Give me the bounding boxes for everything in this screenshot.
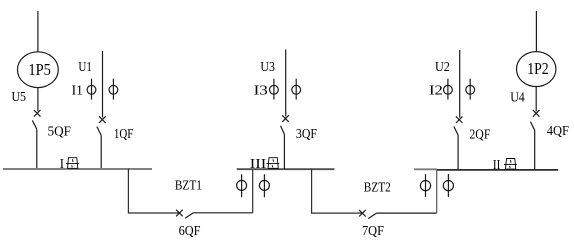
current transformer I2 left [444,79,453,100]
bus II left segment (busbar) [414,168,437,170]
svg-text:U3: U3 [260,60,275,75]
wire feeder U1 [102,51,104,117]
wire tie up to bus II [436,169,438,213]
wire 1P2 to breaker [535,87,537,112]
wire 1P5 to breaker [37,88,39,112]
circuit breaker 2QF [454,116,463,169]
svg-text:BZT2: BZT2 [364,181,391,196]
circuit breaker 3QF [281,115,289,169]
current transformer BZT1 right [259,174,269,197]
bus I (busbar) [3,168,152,170]
svg-text:1QF: 1QF [114,127,134,142]
bus II main segment (busbar) [437,169,558,171]
generator circle 1P5 [18,52,59,88]
current transformer I2 right [466,79,475,100]
svg-text:5QF: 5QF [48,124,72,139]
wire feeder U2 [459,50,461,118]
label bus I 母 [66,158,79,169]
current transformer BZT1 left [237,174,247,197]
wire bus I down to tie [128,169,179,213]
svg-text:U1: U1 [78,60,92,75]
svg-text:I: I [60,157,64,172]
svg-text:I1: I1 [72,84,83,99]
current transformer I1 right [109,79,118,100]
label bus III 母 [267,158,280,169]
circuit breaker 5QF [32,110,40,168]
current transformer I3 right [292,79,301,100]
bus tie breaker 7QF [359,210,437,219]
bus tie breaker 6QF [176,210,253,219]
current transformer BZT2 left [420,174,430,197]
current transformer I1 left [87,79,96,100]
svg-text:2QF: 2QF [469,127,490,142]
generator circle 1P2 [517,52,556,87]
svg-text:I3: I3 [254,84,268,99]
svg-text:7QF: 7QF [362,224,384,239]
wire incoming line 1P2 [535,11,537,52]
svg-text:4QF: 4QF [547,124,569,139]
wire bus III down to tie 2 [312,169,363,213]
bus III (busbar) [237,168,335,170]
wire tie up to bus III [252,169,254,213]
svg-text:U4: U4 [510,90,525,105]
svg-text:3QF: 3QF [296,127,317,142]
current transformer I3 left [270,79,279,100]
svg-text:II: II [493,158,501,173]
wire feeder U3 [285,50,287,117]
svg-text:6QF: 6QF [179,224,201,239]
svg-text:BZT1: BZT1 [175,179,202,194]
svg-text:U5: U5 [12,90,27,105]
svg-text:I2: I2 [429,84,443,99]
svg-text:U2: U2 [435,60,450,75]
label bus II 母 [504,159,517,170]
svg-text:III: III [250,157,267,172]
current transformer BZT2 right [443,174,453,197]
wire incoming line 1P5 [37,11,39,52]
circuit breaker 4QF [531,110,540,170]
circuit breaker 1QF [97,116,106,168]
svg-text:1P5: 1P5 [28,60,51,79]
svg-text:1P2: 1P2 [527,59,549,78]
